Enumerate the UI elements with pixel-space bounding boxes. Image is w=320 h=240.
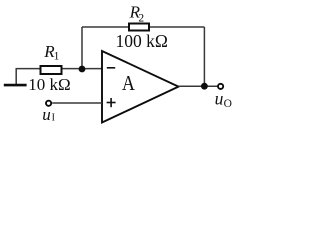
terminal uO (output) xyxy=(218,84,223,89)
svg-text:u: u xyxy=(215,89,224,109)
svg-text:I: I xyxy=(52,113,55,124)
wire: non-inverting input run xyxy=(52,102,102,104)
svg-text:A: A xyxy=(122,73,135,96)
wire: ground stub vertical xyxy=(15,68,17,84)
pin: non-inverting plus sign xyxy=(107,102,116,104)
node: output junction xyxy=(201,83,208,90)
svg-text:u: u xyxy=(42,105,51,124)
terminal uI (input) xyxy=(46,101,51,106)
svg-text:1: 1 xyxy=(54,51,60,63)
wire: output run xyxy=(179,85,218,87)
resistor R2 xyxy=(129,24,149,31)
svg-text:100 kΩ: 100 kΩ xyxy=(116,31,168,51)
svg-text:O: O xyxy=(224,98,232,110)
svg-text:2: 2 xyxy=(138,13,144,25)
resistor R1 xyxy=(41,66,62,74)
ground xyxy=(4,84,27,87)
op-amp U1 xyxy=(102,51,179,123)
svg-text:10 kΩ: 10 kΩ xyxy=(28,75,70,94)
wire: feedback riser right xyxy=(203,27,205,86)
pin: inverting minus sign xyxy=(107,67,115,69)
wire: feedback riser left xyxy=(81,27,83,69)
wire: feedback top run xyxy=(82,26,204,28)
node: junction at inverting input xyxy=(79,66,86,73)
wire: inverting input horizontal run xyxy=(16,68,102,70)
